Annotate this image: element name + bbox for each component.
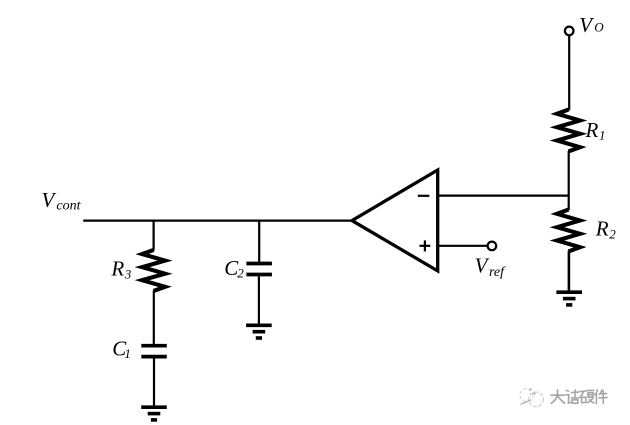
label C2 — [224, 256, 244, 281]
label R3 — [110, 257, 131, 282]
resistor R1 — [557, 110, 580, 152]
wire R3 branch top — [153, 221, 155, 251]
svg-text:3: 3 — [124, 266, 132, 281]
resistor R2 — [557, 210, 580, 252]
svg-text:2: 2 — [237, 266, 244, 281]
svg-text:cont: cont — [56, 199, 81, 214]
capacitor C1 — [141, 346, 167, 357]
watermark icon — [520, 388, 543, 406]
wire C2 to ground — [258, 276, 260, 323]
wire R3 to C1 — [153, 291, 155, 345]
wire R2 to ground — [568, 251, 571, 291]
op-amp minus sign — [418, 195, 430, 197]
op-amp plus sign — [420, 240, 431, 251]
svg-text:1: 1 — [599, 127, 606, 142]
svg-text:R: R — [110, 257, 124, 281]
capacitor C2 — [246, 264, 272, 275]
label Vref — [475, 254, 507, 280]
svg-text:ref: ref — [489, 265, 506, 280]
ground C1 — [141, 407, 167, 420]
svg-text:2: 2 — [609, 226, 616, 241]
wire inverting input to divider node — [439, 195, 569, 197]
label C1 — [112, 337, 131, 362]
label VO — [579, 13, 604, 37]
watermark text hua — [566, 390, 579, 403]
watermark text jian — [595, 390, 607, 404]
watermark text ying — [580, 390, 594, 403]
label R2 — [595, 217, 617, 242]
wire Vcont main horizontal — [83, 220, 353, 222]
op-amp U1 — [352, 170, 438, 271]
svg-text:V: V — [475, 254, 490, 278]
svg-text:O: O — [594, 19, 604, 34]
wire C1 to ground — [153, 358, 155, 405]
svg-text:V: V — [42, 188, 57, 212]
resistor R3 — [142, 250, 165, 291]
svg-text:R: R — [585, 118, 599, 142]
ground C2 — [246, 325, 272, 338]
svg-text:1: 1 — [124, 346, 130, 361]
label R1 — [585, 118, 606, 142]
terminal VO — [565, 27, 574, 36]
wire VO to R1 — [568, 36, 570, 110]
wire R1 to R2 through node — [568, 151, 570, 210]
terminal Vref — [488, 242, 497, 251]
svg-text:R: R — [595, 217, 609, 241]
ground R2 — [556, 292, 582, 305]
watermark text da — [551, 390, 565, 404]
svg-text:V: V — [579, 13, 594, 37]
label Vcont — [42, 188, 82, 214]
wire C2 branch top — [258, 221, 260, 262]
wire noninverting input to Vref — [439, 245, 487, 247]
